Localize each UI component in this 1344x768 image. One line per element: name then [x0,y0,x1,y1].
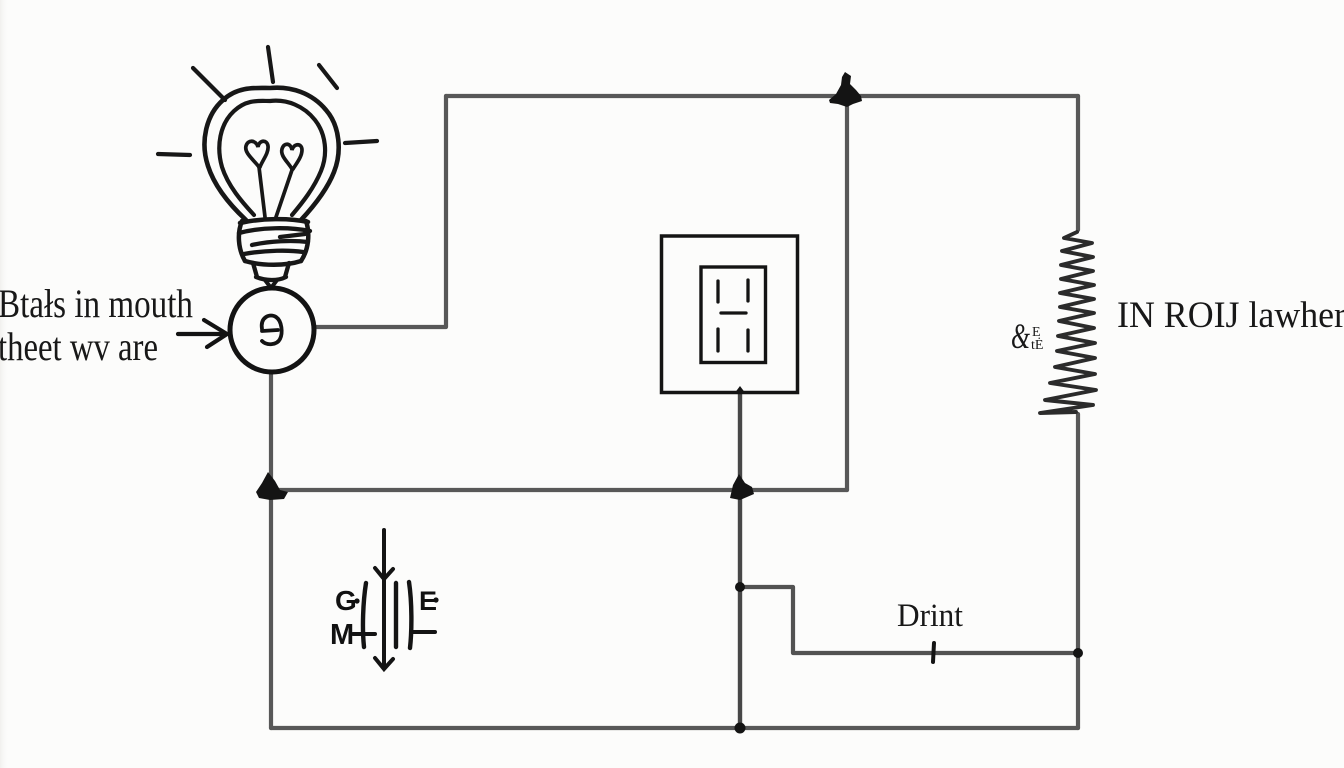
battery label G [335,585,360,616]
wire: left vertical from motor bottom to bottom bus [269,372,273,728]
display inner box [701,267,766,363]
battery label E [419,586,439,616]
lamp tip to motor [265,280,277,288]
junction dot branch at right rail [1073,648,1083,658]
wire: bottom bus [271,726,1078,730]
battery label M [330,619,354,651]
junction nub at display bottom pin [734,386,746,394]
lamp glass inner outline [219,101,325,215]
resistor R1 zigzag [1040,232,1096,413]
motor M1 circle [230,288,314,372]
motor label glyph (reversed e) [262,316,282,345]
svg-text:IN ROIJ lawher: IN ROIJ lawher [1117,294,1344,335]
annotation text line 1 [0,281,193,326]
wire: left riser from top bus down and over to motor right terminal [316,96,446,327]
battery B1 current arrow [375,530,393,669]
wire: right rail upper segment [1076,96,1080,230]
resistor name text [1117,294,1344,335]
junction arrow at node A (top) [829,72,862,107]
wire: branch from display drop to right rail (Drint net) [740,587,1078,653]
battery plates [363,582,411,648]
display U1 outer box [662,236,798,393]
Drint wire tick [933,643,934,662]
battery terminal ticks [353,632,435,634]
Drint net label [897,598,963,634]
svg-text:M: M [330,619,354,651]
lamp filament left loop [246,141,268,167]
resistor side label ampersand [1011,316,1043,356]
junction dot display drop at bottom bus [735,723,746,734]
lamp DS1 glass outer outline [204,88,338,220]
display segments [718,280,748,351]
lamp screw base outline [239,219,308,265]
wire: display drop vertical [738,393,742,728]
svg-text:&: & [1011,316,1030,356]
wire: right rail lower segment [1076,414,1080,728]
junction arrow on display drop at mid bus [730,474,754,500]
svg-text:tĖ: tĖ [1031,337,1043,353]
lamp filament stems [259,167,292,217]
lamp rays [158,47,377,155]
lamp filament right loop [282,144,302,169]
wire: mid horizontal bus [271,488,847,492]
junction dot on display drop at branch takeoff [735,582,745,592]
svg-text:Btałs in mouth: Btałs in mouth [0,281,193,326]
svg-text:theet wv are: theet wv are [0,324,158,369]
input arrow into motor [178,320,227,347]
lamp screw base bands [239,228,310,254]
wire: top bus from node A to resistor top corner [446,94,1078,98]
svg-text:Drint: Drint [897,598,963,634]
wire: middle vertical from node A down to mid bus [845,96,849,490]
annotation text line 2 [0,324,158,369]
svg-text:G: G [335,585,357,616]
junction arrow at left end of mid bus [256,472,288,500]
lamp base cap [253,263,289,280]
